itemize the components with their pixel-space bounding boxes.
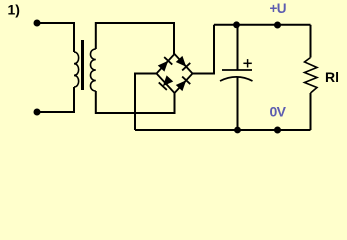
svg-text:Rl: Rl [325, 69, 339, 85]
diode D2 (bridge arm, top node to right node) [175, 54, 193, 74]
wire (secondary top to bridge AC top) [96, 23, 174, 54]
wire (secondary bottom to bridge AC bottom) [96, 91, 175, 113]
wire (+U top rail) [214, 24, 311, 26]
diode D4 (bridge arm, bottom node to right node) [175, 74, 193, 94]
terminal dot (primary bottom input) [34, 109, 41, 116]
svg-text:1): 1) [8, 2, 20, 18]
wire (+U rail down to resistor top) [310, 25, 312, 58]
wire (bridge minus node to 0V rail) [135, 74, 157, 131]
node +U terminal dot [274, 22, 281, 29]
resistor Rl [305, 58, 318, 94]
capacitor C1 negative plate (curved) [220, 77, 253, 81]
wire (resistor bottom to 0V rail) [310, 93, 312, 130]
terminal dot (primary top input) [34, 20, 41, 27]
capacitor C1 positive plate [222, 69, 252, 71]
transformer T1 primary winding [74, 52, 79, 87]
diode D3 (bridge arm, bottom node to left node) [157, 74, 175, 94]
svg-text:+U: +U [270, 1, 286, 16]
wire (primary top: input to winding) [37, 23, 74, 52]
diode D1 (bridge arm, left node to top node) [157, 54, 175, 74]
transformer T1 secondary winding [90, 49, 95, 91]
svg-text:0V: 0V [270, 103, 287, 119]
wire (0V bottom rail) [135, 129, 311, 131]
node 0V terminal dot [274, 127, 281, 134]
capacitor C1 top lead wire [237, 25, 239, 70]
junction dot (capacitor top on +U rail) [233, 21, 240, 28]
capacitor C1 bottom lead wire [237, 77, 239, 130]
wire (primary bottom: winding to input) [37, 87, 74, 112]
wire (bridge plus node up to +U rail) [193, 25, 215, 74]
capacitor C1 polarity mark + [243, 59, 251, 67]
transformer T1 core [81, 40, 84, 90]
junction dot (capacitor bottom on 0V rail) [234, 127, 241, 134]
